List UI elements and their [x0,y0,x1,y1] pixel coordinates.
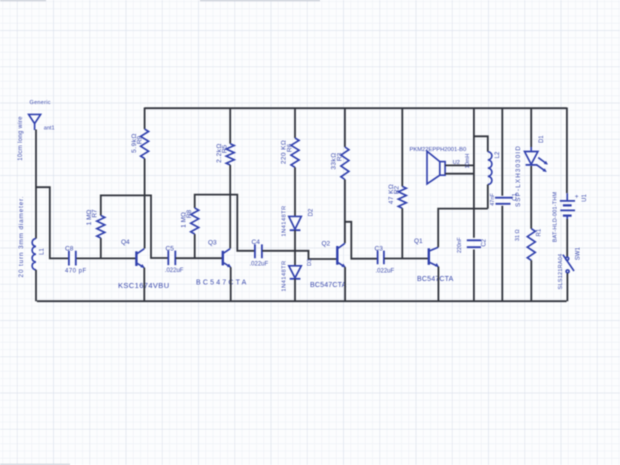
wire R8 top jog to C4 [195,195,255,251]
wire rail to battery [566,108,568,194]
svg-text:D1: D1 [539,135,545,143]
resistor R5 [226,144,234,165]
label plus [575,194,579,201]
resistor R1 [527,229,535,261]
label C4 [252,239,261,246]
svg-text:10mH: 10mH [465,154,471,169]
resistor R9 [141,129,149,158]
label R7 1 MOhm [86,209,99,225]
svg-text:R1: R1 [536,228,542,236]
svg-text:ant1: ant1 [44,126,55,132]
wire C2 to ground rail [473,250,475,302]
svg-text:D3: D3 [307,259,313,266]
label D2 [309,208,315,216]
wire C5 to Q3 base [176,257,223,259]
svg-text:SW1: SW1 [575,247,581,261]
battery U1 [560,193,575,219]
wire Q1 collector up and right [438,209,488,248]
value 1N4148TR D3 [282,260,288,291]
wire Q4 emitter to ground [143,268,145,302]
label D1 [539,135,545,143]
svg-text:C4: C4 [252,239,261,246]
value BC547CTA Q2 [310,282,347,289]
wire Q3 collector up [229,195,231,249]
wire C8 to Q4 base [77,257,136,259]
svg-text:L1: L1 [39,248,45,255]
wire R3 to Q2 collector [344,180,346,244]
value BC547CTA Q1 [417,276,454,283]
wire antenna branch to C8 [36,187,68,258]
svg-text:D2: D2 [309,208,315,216]
wire speaker bottom terminal [445,173,474,175]
label Q1 [414,238,423,245]
capacitor C2 [467,240,481,247]
value C5 .022uF [165,268,184,274]
wire rail to R5 [229,108,231,144]
label SW1 [575,247,581,261]
svg-text:C3: C3 [375,245,384,252]
wire L1 to ground rail [35,270,37,301]
svg-text:33kΩ: 33kΩ [331,152,338,169]
label Q2 [322,241,331,248]
resistor R6 [291,138,299,167]
wire speaker top terminal [445,164,474,166]
label C1 [512,193,518,201]
wire C3 to Q1 base [384,258,428,260]
svg-text:BC547CTA: BC547CTA [196,280,248,287]
capacitor C5 [168,251,175,266]
svg-text:1N4148TR: 1N4148TR [282,260,288,291]
label U1 [582,194,588,202]
svg-text:U1: U1 [582,194,588,202]
resistor R7 [97,216,105,239]
svg-text:C5: C5 [166,245,175,252]
wire antenna down [35,130,37,239]
capacitor C3 [378,251,384,265]
svg-text:47nF: 47nF [490,193,496,206]
wire R6 to D2 [294,167,296,216]
wire R9 to Q4 collector [144,159,146,249]
led D1 [525,147,548,172]
svg-text:+: + [575,194,579,201]
wire C1 to ground rail [501,206,503,301]
resistor R2 [398,186,406,208]
transistor Q3 [223,249,231,268]
wire Q2 collector branch to C3 [345,222,378,259]
wire R7 top jog to C5 [101,195,168,258]
label R1 [536,228,542,236]
transistor Q2 [337,243,345,267]
wire R2 bottom lead [401,208,403,258]
svg-text:220 KΩ: 220 KΩ [281,140,288,164]
svg-text:C8: C8 [65,245,74,252]
svg-text:L2: L2 [495,151,501,158]
wire D1 to R1 [530,166,532,229]
svg-text:SLS121RA04: SLS121RA04 [558,254,564,290]
label C3 [375,245,384,252]
antenna ant1 [29,114,41,130]
value 31 Ohm [515,229,521,241]
wire top supply rail [145,107,567,109]
label C8 [65,245,74,252]
svg-text:.022uF: .022uF [376,268,395,274]
value C4 .022uF [250,261,269,267]
switch SW1 [563,255,574,273]
wire D2 to D3 [294,230,296,266]
svg-text:1 MΩ: 1 MΩ [180,212,187,228]
speaker U2 [427,151,445,184]
svg-text:47 KΩ: 47 KΩ [388,184,395,204]
label Q4 [121,239,130,246]
wire rail to R6 [294,108,296,139]
label R2 47 KOhm [388,184,401,204]
svg-text:1N4148TR: 1N4148TR [282,205,288,236]
svg-text:BC547CTA: BC547CTA [417,276,454,283]
label Q3 [208,240,217,247]
svg-text:10cm long wire: 10cm long wire [18,116,24,161]
svg-text:SSP-LXH3030ID: SSP-LXH3030ID [515,145,522,207]
svg-text:5.9kΩ: 5.9kΩ [131,133,138,153]
capacitor C8 [69,251,76,266]
svg-text:Q2: Q2 [322,241,331,248]
label R9 5.9kOhm [131,133,144,153]
svg-text:.022uF: .022uF [250,261,269,267]
label L2 [495,151,501,158]
label R6 220 KOhm [281,140,294,164]
svg-text:Generic: Generic [30,100,51,106]
label 20 turn 3mm diameter [18,196,25,278]
diode D3 [289,266,302,279]
label C2 [481,238,487,246]
label 10cm long wire [18,116,24,161]
wire R5 bottom lead [229,165,231,195]
svg-text:31 Ω: 31 Ω [515,229,521,241]
resistor R3 [341,147,349,180]
wire rail to R2 [401,108,403,187]
value SLS121RA04 [558,254,564,290]
svg-text:220nF: 220nF [457,237,463,253]
capacitor C1 [495,198,513,204]
capacitor C4 [255,244,262,258]
wire bottom ground rail [37,300,567,302]
label U2 [453,160,460,166]
value BC547CTA Q3 [196,280,248,287]
value PKM22EPPH2001-B0 [410,147,467,153]
resistor R8 [191,208,199,234]
svg-text:1 MΩ: 1 MΩ [86,210,93,226]
svg-text:20 turn 3mm diameter.: 20 turn 3mm diameter. [18,196,25,278]
label R3 33kOhm [331,152,344,169]
label R5 2.2kOhm [216,143,229,163]
wire rail to D1 [530,108,532,148]
wire rail to R3 [344,108,346,148]
inductor L1 [32,239,36,270]
wire switch to ground rail [566,273,568,301]
wire D3 to ground rail [294,279,296,301]
value 470 pF [65,269,87,275]
svg-text:2.2kΩ: 2.2kΩ [216,143,223,163]
value BAT-HLD-001-THM [552,191,558,242]
diode D2 [289,216,302,230]
svg-text:.022uF: .022uF [165,268,184,274]
wire Q1 emitter to ground [437,267,439,302]
wire rail to R9 [144,108,146,130]
value C3 .022uF [376,268,395,274]
wire jog to L2 top [474,136,488,151]
svg-text:BC547CTA: BC547CTA [310,282,347,289]
value KSC1674VBU [118,281,170,290]
wire rail down through speaker node to C2 [473,108,475,238]
wire R8 bottom lead [194,234,196,258]
label R8 1 MOhm [180,209,193,227]
svg-text:Q3: Q3 [208,240,217,247]
label C5 [166,245,175,252]
wire Q2 emitter to ground [344,267,346,301]
label D3 [307,259,313,266]
inductor L2 [488,152,492,185]
transistor Q4 [136,249,144,268]
wire battery to switch [566,219,568,257]
svg-text:Q1: Q1 [414,238,423,245]
wire C4 to Q2 base with step [262,251,337,259]
wire L2 bottom to corner [487,185,489,209]
svg-text:C2: C2 [481,238,487,246]
value SSP-LXH3030ID [515,145,522,207]
value 10mH [465,154,471,169]
svg-text:Q4: Q4 [121,239,130,246]
value 220nF [457,237,463,253]
label L1 [39,248,45,255]
transistor Q1 [429,247,439,266]
value 47nF [490,193,496,206]
label Generic [30,100,51,106]
wire Q3 emitter to ground [230,267,232,301]
wire R1 to ground rail [530,260,532,301]
wire rail to C1 [501,108,503,196]
svg-text:BAT-HLD-001-THM: BAT-HLD-001-THM [552,191,558,242]
label ant1 [44,126,55,132]
svg-text:470 pF: 470 pF [65,269,87,275]
wire R7 bottom lead [100,238,102,258]
value 1N4148TR D2 [282,205,288,236]
svg-text:PKM22EPPH2001-B0: PKM22EPPH2001-B0 [410,147,467,153]
